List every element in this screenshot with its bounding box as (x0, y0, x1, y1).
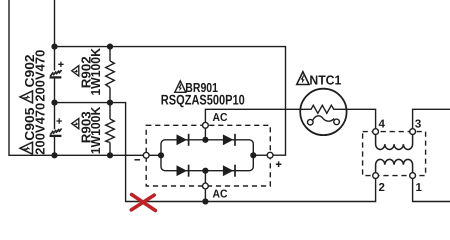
resistor R902 zigzag (106, 61, 115, 88)
svg-text:2: 2 (379, 182, 385, 194)
junction node: rail A at resistor column (107, 44, 113, 50)
wire: R902/R903 column vertical (x=110) with resistor gaps (109, 47, 111, 156)
capacitor C902 symbol (50, 70, 62, 77)
wire: transformer pin 3 to right edge (413, 109, 450, 129)
diode D3 bottom-left (177, 165, 189, 177)
junction node: diode loop left (158, 152, 164, 158)
svg-text:3: 3 (415, 118, 421, 130)
wire: bridge bottom AC stub (204, 189, 206, 202)
warning triangle for R903 (rotated) (72, 118, 79, 128)
plus sign label (276, 161, 282, 167)
diode D4 bottom-right (223, 165, 235, 177)
junction node: bottom rail at bridge AC (202, 198, 208, 204)
warning triangle for C902 (rotated) (20, 91, 33, 103)
junction node: rail A at cap column (51, 44, 57, 50)
junction node: diode loop bottom center (202, 168, 208, 174)
junction node: rail C at cap column (51, 152, 57, 158)
transformer top winding L1 (376, 135, 413, 150)
wire: rail B (middle) down to bottom rail, bottom rail to transformer pin 2 (55, 103, 376, 202)
red X deletion mark over bottom rail wire (131, 195, 155, 211)
svg-text:4: 4 (379, 118, 386, 130)
NTC1 thermistor circle (300, 89, 346, 135)
terminal: transformer pin 2 (373, 173, 379, 179)
wire: bridge minus terminal to diode loop (149, 154, 161, 156)
resistor R903 zigzag (106, 119, 115, 143)
wire: transformer pin 1 to right edge (413, 179, 450, 202)
NTC1 internal resistor zigzag (300, 105, 346, 113)
warning triangle for C905 (rotated) (20, 142, 33, 154)
terminal: transformer pin 4 (373, 129, 379, 135)
NTC1 temperature S-curve with end circles (308, 116, 340, 125)
minus sign label (135, 159, 141, 161)
wire: NTC to transformer pin 4 (347, 109, 376, 129)
bridge rectifier BR901 dashed box (146, 125, 270, 186)
svg-text:1W100K: 1W100K (88, 106, 103, 154)
wire: top AC stub inside bridge (204, 128, 206, 140)
terminal: transformer pin 3 (410, 129, 416, 135)
svg-text:AC: AC (213, 189, 228, 201)
junction node: diode loop top center (202, 137, 208, 143)
warning triangle for BR901 (175, 81, 186, 92)
svg-text:200V470: 200V470 (32, 103, 47, 155)
warning triangle for R902 (rotated) (72, 66, 79, 76)
wire: rail A (top) from cap column right, down to bridge + terminal (55, 47, 286, 156)
wire: diode loop to bridge plus terminal (253, 154, 267, 156)
wire: bridge top AC to NTC (205, 109, 300, 122)
svg-text:1W100K: 1W100K (88, 48, 103, 96)
terminal: bridge AC top (203, 122, 209, 128)
transformer bottom winding L2 (376, 159, 413, 172)
svg-text:AC: AC (213, 112, 228, 124)
wire: C902/C905 column vertical (x=54.5) with capacitor gaps (54, 0, 56, 155)
junction node: rail C at resistor column (107, 152, 113, 158)
diode D1 top-left (177, 134, 189, 146)
svg-text:NTC1: NTC1 (309, 73, 341, 88)
diode D2 top-right (223, 134, 235, 146)
junction node: rail B at cap column (51, 100, 57, 106)
transformer T dashed box (363, 132, 426, 176)
terminal: bridge plus (267, 152, 273, 158)
wire: bridge diode loop rounded rectangle (161, 140, 253, 171)
svg-text:RSQZAS500P10: RSQZAS500P10 (161, 91, 245, 107)
terminal: bridge minus (143, 152, 149, 158)
junction node: diode loop right (250, 152, 256, 158)
junction node: rail B at resistor column (107, 100, 113, 106)
warning triangle for NTC1 (297, 72, 309, 85)
wire: bottom AC stub inside bridge (204, 171, 206, 183)
terminal: bridge AC bottom (203, 183, 209, 189)
plus sign of C905 (57, 118, 62, 123)
capacitor C905 symbol (50, 129, 62, 136)
svg-text:1: 1 (416, 182, 423, 194)
wire: left tall vertical wire to ground rail (9, 0, 143, 155)
svg-text:200V470: 200V470 (32, 50, 47, 102)
terminal: transformer pin 1 (410, 173, 416, 179)
plus sign of C902 (58, 62, 63, 67)
